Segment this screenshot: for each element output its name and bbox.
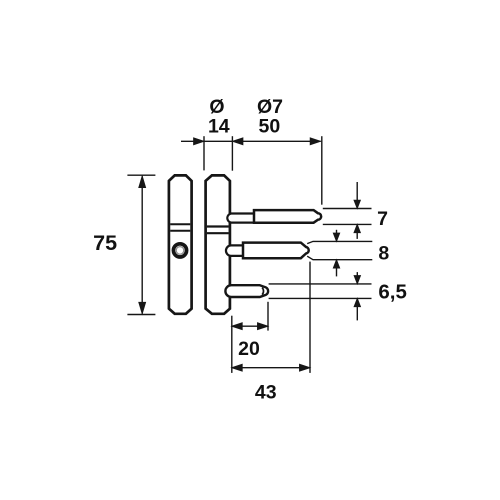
dimension 75 bottom bar	[127, 314, 155, 316]
left leaf joint line lower	[170, 230, 190, 232]
arrow 43 right	[300, 364, 310, 371]
svg-text:43: 43	[255, 381, 277, 403]
extension line 6,5 upper	[269, 283, 372, 285]
svg-text:6,5: 6,5	[378, 281, 407, 304]
arrow 50 right	[310, 138, 320, 145]
bottom pin tip arc	[262, 288, 263, 295]
right leaf joint line lower	[207, 232, 229, 234]
arrow 8 upper	[336, 230, 338, 234]
extension line 14 left	[203, 136, 205, 170]
extension line 7 lower	[323, 223, 372, 225]
arrow 7 lower	[356, 232, 358, 239]
dimension line 43	[232, 367, 310, 369]
middle pin neck	[226, 245, 244, 256]
extension line 8 lower	[307, 256, 372, 260]
bottom pin	[225, 285, 268, 297]
left leaf joint line upper	[170, 223, 190, 225]
arrow 75 down	[139, 302, 146, 314]
dimension line 20	[232, 325, 268, 327]
arrow 20 right	[258, 323, 268, 330]
extension line 14 right / 50 left	[231, 136, 233, 171]
extension line 43 right	[309, 262, 311, 373]
extension line 8 upper	[307, 241, 372, 243]
middle pin shaft	[243, 243, 309, 259]
dimension 75 top bar	[127, 174, 155, 176]
svg-text:75: 75	[93, 231, 117, 255]
arrow 7 upper	[356, 182, 358, 201]
arrow 20 left	[232, 323, 242, 330]
arrow 14 left	[194, 138, 204, 145]
dimension line top (14 / 50)	[181, 140, 321, 142]
top pin neck	[227, 214, 254, 223]
screw hole inner countersink	[176, 247, 184, 255]
right leaf joint line upper	[207, 225, 229, 227]
extension line 6,5 lower	[269, 297, 372, 299]
svg-text:7: 7	[377, 208, 388, 230]
top pin shaft	[254, 210, 321, 223]
screw hole outer ring	[173, 244, 186, 257]
svg-text:50: 50	[259, 116, 281, 138]
extension line 50 right	[321, 136, 323, 205]
arrow 6,5 lower	[356, 306, 358, 320]
arrow 14 right / 50 left	[233, 138, 243, 145]
svg-text:14: 14	[208, 116, 230, 138]
svg-text:20: 20	[238, 338, 260, 360]
arrow 75 up	[139, 176, 146, 188]
extension line 7 upper	[323, 208, 372, 210]
extension line 20/43 left	[231, 316, 233, 373]
dimension 75 line	[141, 176, 143, 313]
arrow 6,5 upper	[356, 272, 358, 276]
extension line 20 right	[267, 302, 269, 331]
right hinge leaf body	[206, 175, 230, 313]
arrow 43 left	[232, 364, 242, 371]
svg-text:8: 8	[378, 243, 389, 265]
arrow 8 lower	[336, 267, 338, 276]
left hinge leaf body	[169, 175, 192, 313]
